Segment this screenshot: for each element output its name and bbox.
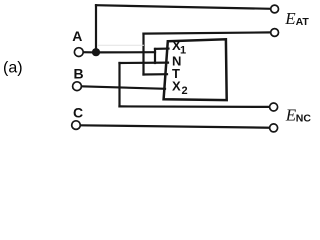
svg-text:X: X bbox=[172, 79, 181, 94]
svg-text:NC: NC bbox=[296, 112, 311, 124]
svg-text:E: E bbox=[284, 9, 296, 28]
svg-text:(a): (a) bbox=[3, 59, 23, 76]
svg-text:AT: AT bbox=[296, 16, 310, 28]
svg-text:C: C bbox=[73, 104, 83, 120]
svg-text:B: B bbox=[74, 66, 84, 82]
svg-text:2: 2 bbox=[182, 85, 188, 97]
svg-text:A: A bbox=[72, 28, 82, 44]
